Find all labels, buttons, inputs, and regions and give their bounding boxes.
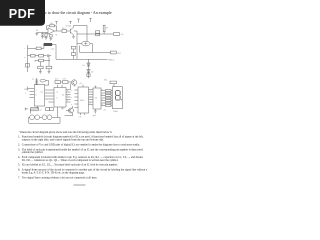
pin stubs B1 left — [30, 89, 35, 98]
svg-text:a: a — [71, 90, 72, 92]
svg-text:1k: 1k — [56, 35, 58, 37]
display DS1 — [112, 87, 122, 109]
pin stubs U2 bottom — [58, 107, 63, 109]
wire B1 to U2 row3 — [45, 95, 54, 97]
svg-text:+9v: +9v — [94, 86, 97, 88]
seven-segment digit — [115, 91, 120, 100]
svg-text:+9v: +9v — [79, 83, 82, 85]
wire K1b down — [72, 55, 74, 59]
transistor Q3 — [69, 108, 74, 113]
wire rail2 — [28, 55, 47, 57]
body text block — [18, 131, 148, 180]
svg-text:Connections of Vcc and GND pin: Connections of Vcc and GND pins of digit… — [22, 143, 140, 146]
svg-text:1k: 1k — [34, 60, 36, 62]
capacitor C6 — [48, 54, 52, 57]
transistor Q1 — [70, 26, 77, 37]
svg-text:break E.g. A-T, E-T, F-N, TR-K: break E.g. A-T, E-T, F-N, TR-K etc. in t… — [22, 171, 85, 174]
wire U1 out — [55, 30, 63, 32]
svg-text:Q3: Q3 — [62, 108, 64, 110]
svg-text:U4: U4 — [41, 92, 43, 94]
svg-text:C7: C7 — [32, 79, 34, 81]
varistor RV1 — [87, 74, 90, 77]
svg-text:b: b — [36, 95, 37, 97]
svg-text:7-SEG: 7-SEG — [113, 111, 119, 113]
svg-text:U2: U2 — [62, 95, 64, 97]
resistor R11 — [111, 51, 117, 54]
resistor R24 — [106, 97, 112, 99]
svg-text:1 8: 1 8 — [79, 117, 81, 119]
svg-text:2.: 2. — [18, 143, 20, 146]
tiny value labels — [24, 23, 124, 118]
svg-text:+12v: +12v — [51, 48, 55, 50]
resistor R21 — [106, 90, 112, 92]
wire B1 to U2 row2 — [45, 92, 54, 94]
resistor R8 — [39, 59, 44, 62]
svg-text:How to draw the circuit diagra: How to draw the circuit diagram - An exa… — [39, 11, 112, 15]
svg-text:0.1u: 0.1u — [62, 28, 65, 30]
wire rail3 — [35, 60, 50, 62]
wire E3 leads — [45, 81, 49, 86]
svg-text:330: 330 — [104, 79, 107, 81]
decimal point — [121, 99, 122, 100]
svg-text:e: e — [71, 104, 72, 106]
svg-text:4.7k: 4.7k — [63, 79, 66, 81]
supply stub S3 — [89, 19, 91, 23]
svg-text:U3: U3 — [95, 98, 97, 100]
svg-text:e: e — [67, 100, 68, 102]
resistor R9 — [38, 62, 43, 72]
resistor R10 — [46, 56, 52, 72]
svg-text:1.: 1. — [18, 136, 20, 139]
svg-text:5.: 5. — [18, 164, 20, 167]
resistor R6 — [31, 54, 35, 57]
svg-text:Two signal lines crossing with: Two signal lines crossing without a dot … — [22, 176, 98, 179]
pin stub U4 top — [94, 86, 96, 88]
svg-text:gnd: gnd — [93, 115, 96, 117]
ground G5 — [48, 72, 51, 74]
wire rail1 — [28, 45, 57, 60]
capacitor C5 — [41, 33, 44, 37]
wire to Q1 — [67, 30, 71, 32]
wires U3 to U4 — [89, 90, 94, 105]
footer dash — [74, 184, 86, 186]
svg-text:12: 12 — [40, 109, 42, 111]
svg-text:Q1: Q1 — [69, 26, 71, 28]
pin stubs U3 left — [75, 90, 79, 108]
IC U2 — [54, 88, 66, 108]
diode chain wire — [88, 59, 90, 78]
svg-text:+9v: +9v — [103, 110, 106, 112]
ground G9 — [49, 37, 52, 40]
motor E5 — [35, 115, 40, 120]
lamp E2 — [82, 41, 90, 46]
resistor R16 — [45, 33, 47, 38]
pin stubs U2 right — [66, 90, 71, 103]
resistor R17 — [26, 63, 30, 67]
wire B1 to U2 row4 — [45, 98, 54, 100]
resistor R15 — [110, 81, 117, 87]
diode D1 — [87, 63, 90, 66]
IC U4 — [93, 88, 101, 109]
wire U3 row2 — [101, 92, 112, 94]
svg-text:4.7k: 4.7k — [55, 79, 58, 81]
ground G3 — [72, 36, 75, 38]
pin stubs U2 left — [49, 101, 55, 103]
svg-text:e: e — [102, 99, 103, 101]
svg-text:3.: 3. — [18, 148, 20, 151]
svg-text:4026: 4026 — [80, 100, 84, 102]
svg-text:g: g — [90, 103, 91, 105]
wire U3 row6 — [101, 102, 112, 104]
wire U3 row5 — [101, 100, 112, 102]
capacitor C3 — [35, 80, 38, 81]
resistor R2 — [50, 25, 55, 27]
module B1 — [34, 85, 44, 106]
svg-text:a: a — [36, 90, 37, 92]
ground G6 — [94, 109, 97, 113]
resistor R23 — [106, 95, 112, 97]
svg-text:Where the circuit diagram give: Where the circuit diagram given above an… — [20, 131, 113, 134]
motor E6 — [42, 115, 47, 120]
svg-text:D2: D2 — [91, 71, 93, 73]
supply stub S2 +9V — [77, 19, 79, 23]
sub-circuit bus — [27, 45, 29, 72]
op-amp U1 — [48, 28, 55, 34]
svg-text:+: + — [24, 48, 25, 50]
connector K2 — [46, 108, 54, 111]
svg-text:rs: rs — [56, 97, 58, 100]
resistor R22 — [106, 92, 112, 94]
svg-text:4.: 4. — [18, 156, 20, 159]
ground G8 — [45, 38, 48, 40]
svg-text:D1: D1 — [83, 65, 85, 67]
svg-text:1: 1 — [25, 93, 26, 95]
wire circle row — [40, 116, 58, 118]
capacitor chain wire — [36, 78, 38, 85]
svg-text:c: c — [71, 97, 72, 99]
wire K1a-K1b — [72, 49, 74, 53]
svg-text:SW: SW — [24, 89, 27, 91]
wire U3 row7 — [101, 105, 112, 107]
svg-text:a: a — [102, 89, 103, 91]
motor E7 — [47, 115, 52, 120]
capacitor C8 — [35, 83, 38, 84]
wire A top-right run — [74, 26, 114, 42]
ground G0 — [35, 33, 38, 36]
resistor R25 — [106, 100, 112, 102]
PDF badge — [0, 0, 45, 26]
svg-text:a: a — [67, 90, 68, 92]
resistor R18 — [50, 35, 53, 37]
svg-text:ck: ck — [56, 92, 58, 94]
wire Q3 leads — [65, 106, 73, 116]
diode D2 — [87, 70, 90, 73]
svg-text:ICs are labeled as U1, U2, ...: ICs are labeled as U1, U2, ... You may l… — [22, 164, 118, 167]
svg-text:d: d — [90, 97, 91, 99]
resistor R4 — [114, 33, 120, 36]
supply stub S4 — [69, 21, 71, 24]
connector K3 — [31, 107, 39, 110]
resistor R5 — [36, 47, 41, 50]
node V1 drop — [76, 31, 78, 59]
node IN — [37, 32, 49, 34]
wire E2 leads — [77, 44, 93, 53]
svg-text:outputs on the right side, and: outputs on the right side, and control s… — [22, 139, 104, 142]
svg-text:o: o — [24, 57, 25, 59]
resistor R7 — [39, 54, 44, 57]
terminal T2 — [25, 108, 28, 111]
wire U3 row1 — [101, 90, 112, 92]
svg-text:c: c — [102, 94, 103, 96]
supply stub S1 — [55, 22, 57, 25]
ground G4 — [39, 72, 42, 74]
wire B1 to U2 row1 — [45, 89, 54, 91]
svg-text:+9v: +9v — [57, 83, 60, 85]
transistor Q2 — [72, 80, 77, 87]
svg-text:a: a — [90, 90, 91, 92]
wire feedback — [47, 26, 57, 31]
motor E4 — [30, 115, 35, 120]
relay contact K1b — [71, 53, 75, 56]
resistor R14 — [61, 81, 72, 84]
wire U2 pin drop — [57, 109, 59, 117]
pin stubs U2 top — [58, 85, 63, 88]
IC U3 — [78, 87, 89, 113]
connector J1 — [96, 31, 100, 36]
ground G7 — [41, 37, 44, 39]
svg-text:XT: XT — [106, 28, 108, 30]
wire B run — [80, 52, 111, 54]
wire U3 row4 — [101, 97, 112, 99]
pin stubs U3 bottom — [81, 113, 85, 115]
resistor R26 — [106, 102, 112, 104]
svg-text:OUT: OUT — [117, 53, 121, 55]
wire switch input — [28, 87, 30, 91]
svg-text:PDF: PDF — [9, 7, 36, 21]
svg-text:D1, D2, ... transistors as Q1,: D1, D2, ... transistors as Q1, Q2 ... Va… — [22, 159, 119, 162]
wire C run — [56, 58, 108, 60]
relay K1 — [44, 43, 52, 45]
wire U3 row3 — [101, 95, 112, 97]
svg-text:outside the symbol.: outside the symbol. — [22, 151, 44, 154]
resistor R13 — [55, 81, 61, 84]
wire bottom bus — [29, 117, 60, 123]
svg-text:6.: 6. — [18, 169, 20, 172]
pin stub U3 top — [82, 85, 84, 87]
svg-text:10k: 10k — [50, 23, 53, 25]
oscillator E3 — [40, 79, 46, 82]
relay contact K1a — [71, 46, 75, 49]
resistor R27 — [106, 105, 112, 107]
wire drop a — [70, 84, 72, 90]
pin stub B1 bottom — [37, 106, 39, 109]
svg-text:g: g — [102, 104, 103, 106]
svg-text:GND 0v: GND 0v — [108, 59, 114, 61]
svg-text:7.: 7. — [18, 176, 20, 179]
wire B1 drop — [31, 109, 38, 114]
capacitor C2 — [62, 30, 67, 33]
crystal P1 — [103, 25, 105, 34]
